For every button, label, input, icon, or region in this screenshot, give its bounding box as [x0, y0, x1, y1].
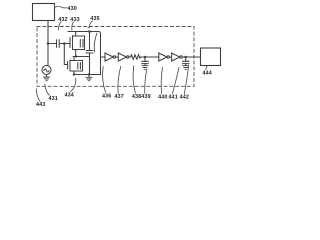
wire capacitor 434 to bottom: [89, 54, 91, 75]
wire to output: [182, 56, 200, 58]
dashed box 435: [37, 27, 194, 87]
top supply rail: [68, 32, 101, 75]
svg-text:434: 434: [65, 93, 74, 99]
inverter 440: [159, 53, 170, 61]
wire curve: [94, 33, 97, 52]
node on rail: [88, 30, 91, 33]
label 440: [158, 68, 167, 101]
svg-text:439: 439: [141, 94, 150, 100]
label 438: [132, 66, 141, 100]
svg-text:443: 443: [36, 102, 45, 108]
capacitor 432: [57, 40, 60, 48]
capacitor 434 branch wire: [89, 32, 91, 51]
ground of 442: [183, 66, 189, 70]
capacitor 442: [182, 57, 189, 65]
svg-text:430: 430: [68, 6, 77, 12]
bottom wire: [74, 74, 101, 76]
wire into amplifier chain: [101, 56, 106, 58]
node at 74,74.5: [73, 73, 75, 75]
label 434: [65, 78, 76, 98]
label 443: [36, 89, 45, 109]
feedback wire to lower transistor gate: [64, 44, 67, 65]
wire: [129, 56, 131, 58]
label 432: [58, 17, 67, 30]
label 439: [141, 70, 150, 101]
svg-text:437: 437: [115, 94, 124, 100]
node at 145,57: [144, 56, 147, 59]
label 436: [102, 66, 111, 99]
mid wire: [73, 56, 90, 58]
capacitor 434: [86, 51, 93, 54]
capacitor 439: [142, 57, 149, 65]
node at 89,74.5: [88, 73, 90, 75]
ground of 439: [142, 66, 148, 70]
label 441: [169, 68, 180, 101]
transistor lower: [68, 57, 83, 75]
node at 185.7,57: [184, 56, 187, 59]
wire: [141, 56, 159, 58]
svg-text:444: 444: [203, 70, 212, 76]
resistor 438: [131, 55, 141, 59]
node at 76,56.5: [75, 55, 77, 57]
svg-text:442: 442: [180, 95, 189, 101]
label 444: [203, 66, 212, 77]
inverter 437: [118, 53, 129, 61]
svg-text:441: 441: [169, 95, 178, 101]
svg-text:433: 433: [70, 17, 79, 23]
svg-text:432: 432: [58, 17, 67, 23]
svg-text:440: 440: [158, 95, 167, 101]
current source 431: [42, 44, 51, 77]
label 433: [70, 17, 79, 30]
block 444: [201, 48, 221, 66]
label 431: [45, 84, 58, 102]
ground of 431: [43, 77, 49, 81]
inverter 436: [105, 53, 116, 61]
svg-text:431: 431: [49, 96, 58, 102]
svg-text:438: 438: [132, 94, 141, 100]
wire to capacitor 432: [48, 43, 56, 45]
label 430: [55, 6, 77, 12]
wire node to gate of 433: [64, 43, 70, 45]
svg-text:435: 435: [90, 16, 99, 22]
svg-text:436: 436: [102, 93, 111, 99]
label 442: [180, 65, 189, 101]
transistor 433: [70, 32, 85, 57]
wire from 430 down: [47, 21, 49, 44]
wire: [116, 56, 119, 58]
wire capacitor to node: [60, 43, 65, 45]
node at 48,43.5: [47, 42, 50, 45]
node at 64.3,43.5: [63, 42, 66, 45]
label 437: [115, 66, 124, 100]
inverter 441: [172, 53, 183, 61]
label 435: [88, 16, 100, 28]
block 430: [33, 4, 55, 21]
wire: [169, 56, 171, 58]
ground below bottom wire: [86, 75, 92, 81]
